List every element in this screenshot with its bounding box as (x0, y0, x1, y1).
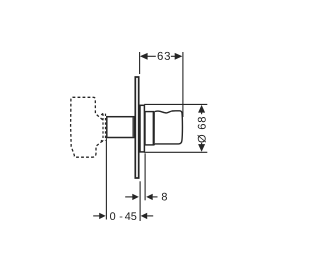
dimension 8 (bottom): extension line A (plate front) (139, 181, 141, 221)
sleeve between boss and handle (145, 112, 154, 145)
handle body (155, 111, 183, 144)
dimension 0-45: left arrow tail (93, 215, 99, 217)
handle stem (thick line) (153, 111, 155, 145)
dimension 63: dimension line segments (147, 55, 155, 57)
connection tube (sleeve through wall) (107, 117, 135, 138)
dimension 63: left arrowhead (140, 53, 148, 60)
label 0 - 45 (110, 212, 136, 220)
concealed valve body (dashed outline in wall) (71, 97, 103, 157)
label O68 (rotated) (198, 117, 206, 143)
hidden spindle band (double dashed vertical lines) (101, 113, 106, 142)
dimension 8: right arrowhead (146, 194, 153, 200)
dimension 63: right extension line (182, 52, 184, 117)
boss ring O68 (side view) (140, 105, 144, 152)
dimension 0-45 (bottom): left extension line (tube end extended) (105, 138, 107, 219)
dimension 8: left arrowhead (132, 194, 139, 200)
dimension 0-45: left arrowhead (99, 213, 106, 219)
dimension O68 (right): top extension line (144, 103, 207, 105)
dimension 8: right arrow tail (153, 196, 158, 198)
label 63 (158, 52, 170, 60)
dimension 8: left arrow tail (125, 196, 132, 198)
label 8 (162, 193, 167, 201)
tube end ring (132, 117, 134, 136)
dimension 63 (top): left extension line (139, 52, 141, 74)
escutcheon plate (side view) (135, 77, 138, 178)
dimension 0-45: right arrowhead (141, 213, 148, 219)
dimension O68: bottom arrowhead (198, 144, 205, 152)
dimension 63: right arrowhead (175, 53, 183, 60)
dimension O68: bottom extension line (144, 151, 207, 153)
dimension O68: dimension line segments (201, 111, 203, 114)
dimension 0-45: right arrow tail (147, 215, 153, 217)
dimension O68: top arrowhead (198, 105, 205, 113)
dimension 8: extension line B (boss front) (144, 153, 146, 200)
